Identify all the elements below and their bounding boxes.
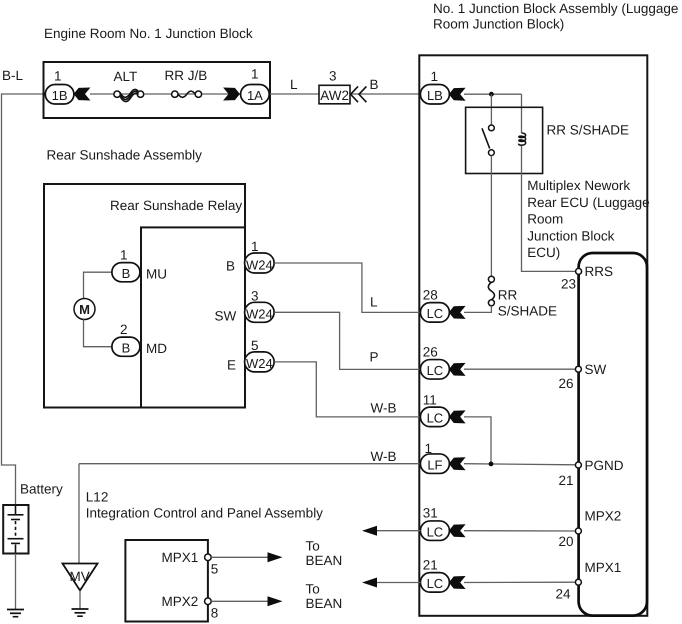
svg-text:BEAN: BEAN (306, 553, 343, 568)
svg-text:5: 5 (251, 338, 259, 353)
svg-text:W-B: W-B (371, 401, 397, 416)
svg-text:26: 26 (559, 376, 574, 391)
wire battery to ground (15, 554, 17, 610)
wire B from AW2 to LB (350, 93, 421, 95)
text: Multiplex Nework Rear ECU (527, 178, 649, 260)
junction dot (489, 92, 494, 97)
wire down to MV (78, 464, 80, 564)
relay switch blade (482, 128, 490, 148)
wire LC26 to SW terminal (464, 368, 576, 370)
arrow at LF (449, 457, 466, 470)
arrow at LC21 (449, 576, 466, 589)
svg-text:To: To (306, 582, 320, 597)
ground (battery) (7, 610, 24, 617)
svg-text:MV: MV (70, 569, 90, 584)
svg-text:2: 2 (120, 322, 128, 337)
motor M (74, 299, 95, 320)
svg-text:Rear Sunshade Relay: Rear Sunshade Relay (110, 198, 242, 213)
svg-text:3: 3 (329, 69, 337, 84)
svg-text:LC: LC (427, 363, 444, 378)
wire LC21 exit left with arrowhead (376, 582, 421, 584)
svg-text:Engine Room No. 1 Junction Blo: Engine Room No. 1 Junction Block (44, 26, 253, 41)
connector B (MU) (112, 263, 140, 282)
wire down to coil (521, 94, 523, 133)
svg-text:RR J/B: RR J/B (165, 68, 208, 83)
block: Engine Room No.1 Junction Block box (44, 62, 271, 118)
arrow at LB (449, 88, 466, 101)
svg-text:No. 1 Junction Block Assembly: No. 1 Junction Block Assembly (Luggage (433, 1, 678, 16)
svg-text:BEAN: BEAN (306, 596, 343, 611)
connector LC 26 (420, 360, 449, 380)
wire LC11 to PGND junction (464, 417, 491, 464)
svg-text:Rear Sunshade Assembly: Rear Sunshade Assembly (47, 148, 203, 163)
wire LB to relay (464, 93, 522, 95)
block: RR S/SHADE relay box (466, 107, 543, 173)
svg-text:SW: SW (215, 308, 237, 323)
connector LC 11 (420, 407, 449, 427)
svg-text:LC: LC (427, 576, 444, 591)
label To BEAN (306, 582, 343, 612)
block: Rear Sunshade Relay box (141, 227, 245, 407)
svg-text:E: E (227, 357, 236, 372)
arrowhead to BEAN (right) (268, 552, 283, 562)
connector 1A (241, 85, 270, 105)
wire LC21 to MPX1 terminal (464, 581, 576, 583)
svg-text:RR S/SHADE: RR S/SHADE (547, 123, 630, 138)
svg-text:28: 28 (423, 288, 438, 303)
connector LC 21 (420, 573, 449, 593)
svg-text:To: To (306, 539, 320, 554)
svg-text:W-B: W-B (371, 449, 397, 464)
label RR S/SHADE fuse (498, 288, 557, 319)
svg-text:W24: W24 (246, 307, 273, 322)
wire W24-5 to LC11 (W-B) (274, 362, 420, 417)
svg-text:B-L: B-L (2, 68, 24, 83)
svg-text:L: L (290, 77, 298, 92)
wire L from 1A to AW2 (270, 93, 319, 95)
svg-text:SW: SW (585, 362, 607, 377)
arrowhead to BEAN (left) (362, 578, 377, 588)
wire LC31 to MPX2 terminal (464, 530, 576, 532)
svg-text:Room Junction Block): Room Junction Block) (433, 17, 564, 32)
svg-text:LB: LB (427, 88, 443, 103)
svg-text:24: 24 (556, 587, 572, 602)
svg-text:1A: 1A (247, 88, 263, 103)
fuse RR J/B (172, 91, 202, 97)
node RRS terminal (576, 268, 582, 274)
arrowhead to BEAN (left) (362, 526, 377, 536)
connector W24 pin3 (245, 302, 275, 322)
relay switch contact top (489, 125, 495, 131)
block: Integration Control and Panel Assembly box (125, 540, 207, 622)
wire MPX2 to BEAN (211, 600, 269, 602)
svg-text:LC: LC (427, 411, 444, 426)
junction dot (489, 462, 494, 467)
node SW terminal (575, 366, 581, 372)
connector LC 31 (420, 521, 449, 541)
connector LF 1 (420, 454, 449, 474)
svg-text:MPX2: MPX2 (585, 509, 622, 524)
arrowhead to BEAN (right) (268, 596, 283, 606)
svg-text:1: 1 (251, 239, 259, 254)
arrow at LC28 (449, 306, 466, 319)
block: Multiplex Network Rear ECU connector (rounded) (579, 253, 647, 616)
svg-text:RR: RR (498, 288, 518, 303)
svg-text:20: 20 (559, 534, 574, 549)
svg-text:B: B (122, 341, 131, 356)
svg-text:Battery: Battery (20, 482, 63, 497)
node MPX2 terminal (575, 528, 581, 534)
wire W-B to LF (79, 463, 421, 465)
fuse RR S/SHADE (488, 276, 494, 306)
svg-text:L12: L12 (86, 490, 109, 505)
label To BEAN (306, 539, 343, 569)
svg-text:21: 21 (559, 473, 574, 488)
svg-text:W24: W24 (246, 356, 273, 371)
arrow at LC26 (449, 363, 466, 376)
svg-text:B: B (122, 266, 131, 281)
svg-text:S/SHADE: S/SHADE (498, 304, 557, 319)
relay coil (519, 133, 526, 145)
wire 1B to 1A inside box (90, 93, 240, 95)
block: Rear Sunshade Assembly box (44, 184, 245, 408)
svg-text:Integration Control and Panel: Integration Control and Panel Assembly (86, 506, 323, 521)
node MPX1 terminal (575, 579, 581, 585)
title: No. 1 Junction Block Assembly (Luggage Room Junction Block) (433, 1, 678, 32)
wire coil to RRS terminal (522, 146, 576, 271)
svg-text:LC: LC (427, 525, 444, 540)
connector W24 pin1 (245, 253, 275, 273)
svg-text:1: 1 (120, 248, 128, 263)
connector AW2 (319, 85, 350, 104)
svg-text:MPX1: MPX1 (585, 560, 622, 575)
node MPX1 pin (205, 554, 212, 561)
svg-text:B: B (226, 258, 235, 273)
svg-text:B: B (370, 77, 379, 92)
svg-text:Junction Block: Junction Block (527, 228, 614, 243)
svg-text:Rear ECU (Luggage: Rear ECU (Luggage (527, 195, 649, 210)
svg-text:P: P (370, 350, 379, 365)
svg-text:MPX1: MPX1 (162, 550, 199, 565)
noise filter MV (63, 564, 98, 591)
female connector chevrons (351, 86, 367, 102)
svg-text:1B: 1B (52, 88, 68, 103)
svg-text:MD: MD (146, 341, 167, 356)
wire B-L from battery to 1B (2, 94, 47, 506)
svg-text:1: 1 (431, 69, 439, 84)
svg-text:LF: LF (427, 458, 442, 473)
svg-text:11: 11 (423, 393, 437, 408)
wire MPX1 to BEAN (211, 556, 269, 558)
svg-text:LC: LC (427, 306, 444, 321)
svg-text:5: 5 (211, 562, 219, 577)
wire down to switch (490, 94, 492, 125)
svg-text:21: 21 (423, 558, 438, 573)
node MPX2 pin (205, 598, 212, 605)
svg-text:31: 31 (423, 506, 438, 521)
connector LC 28 (420, 303, 449, 323)
battery (3, 505, 28, 554)
svg-text:MU: MU (146, 266, 167, 281)
node PGND terminal (575, 462, 581, 468)
wire MV to ground (79, 591, 81, 610)
wire LC31 exit left with arrowhead (376, 530, 421, 532)
svg-text:1: 1 (425, 441, 433, 456)
svg-text:M: M (79, 302, 90, 317)
connector B (MD) (112, 337, 140, 356)
wire switch to fuse (490, 156, 492, 277)
svg-text:ECU): ECU) (527, 245, 560, 260)
arrow at 1A (male terminal) (223, 88, 240, 101)
svg-text:26: 26 (423, 345, 438, 360)
wire motor to MD (84, 320, 113, 347)
wire W24-1 to LC28 (L) (274, 263, 420, 312)
svg-text:Room: Room (527, 212, 563, 227)
svg-text:Multiplex Nework: Multiplex Nework (527, 178, 630, 193)
svg-text:AW2: AW2 (320, 88, 349, 103)
wire MU to motor (84, 272, 113, 298)
block: No.1 Junction Block Assembly box (419, 55, 647, 616)
svg-text:ALT: ALT (114, 69, 138, 84)
svg-text:L: L (370, 295, 378, 310)
wire W24-3 to LC26 (P) (274, 312, 420, 369)
arrow at LC31 (449, 524, 466, 537)
arrow at LC11 (449, 410, 466, 423)
svg-text:3: 3 (251, 288, 259, 303)
svg-text:MPX2: MPX2 (162, 594, 199, 609)
svg-text:8: 8 (211, 606, 219, 621)
arrow at 1B (male terminal) (74, 88, 91, 101)
connector W24 pin5 (245, 352, 275, 372)
connector LB (420, 85, 449, 105)
svg-text:1: 1 (54, 69, 62, 84)
ground (MV) (72, 609, 89, 616)
svg-text:PGND: PGND (585, 458, 624, 473)
svg-text:RRS: RRS (585, 264, 614, 279)
fuse ALT (fusible link) (114, 89, 144, 101)
connector 1B (45, 85, 74, 105)
relay switch contact bottom (489, 150, 495, 156)
wire LF to PGND (464, 464, 576, 465)
wire fuse to LC28 (464, 306, 491, 313)
svg-text:23: 23 (561, 277, 576, 292)
svg-text:W24: W24 (246, 257, 273, 272)
svg-text:1: 1 (251, 67, 259, 82)
